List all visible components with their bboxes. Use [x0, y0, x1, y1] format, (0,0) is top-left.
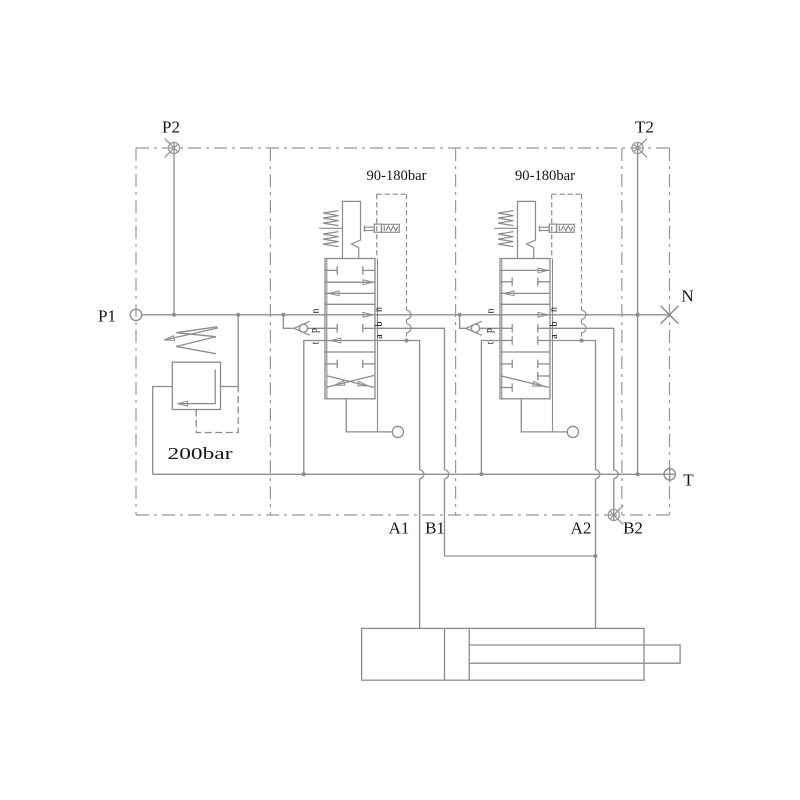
- relief valve body V1: [172, 362, 220, 409]
- valve U2 spring seat plate: [494, 227, 517, 229]
- valve U1 pos3 blocked ports: [325, 360, 337, 369]
- valve U2 pos3 blocked ports: [500, 360, 512, 369]
- valve U2 spring lower: [498, 232, 514, 247]
- valve U2 pos2 blocked t row: [500, 336, 512, 345]
- enclosure border bottom: [136, 514, 670, 516]
- svg-text:n: n: [374, 307, 385, 312]
- svg-text:b: b: [549, 322, 560, 327]
- valve U2 side rail line: [552, 259, 554, 432]
- valve U2 pos3 diagonal flow: [501, 376, 549, 388]
- svg-text:A2: A2: [571, 519, 592, 538]
- junction tank-valve2: [479, 472, 483, 476]
- port B2: [608, 506, 623, 525]
- valve U2 pos3 blocked b right: [538, 372, 550, 381]
- junction main-check2: [458, 313, 462, 317]
- port P1: [130, 309, 141, 320]
- check valve CV1 feed wire: [283, 315, 294, 329]
- valve U2 pilot box dashed right with hops: [581, 194, 583, 310]
- valve U1 compensator plunger: [374, 224, 381, 232]
- svg-text:T2: T2: [635, 118, 654, 137]
- valve U2 compensator rod: [540, 227, 550, 230]
- port P2: [165, 139, 180, 158]
- check valve CV1 seat cone: [294, 321, 310, 335]
- svg-text:N: N: [681, 287, 693, 306]
- svg-text:n: n: [549, 307, 560, 312]
- enclosure border right: [669, 148, 671, 515]
- valve U1 pos2 blocked p row: [325, 324, 337, 333]
- valve U2 pos2 blocked p row: [500, 324, 512, 333]
- junction pilot1 to a-line: [405, 339, 409, 343]
- wire B1: valve1 b port down: [375, 328, 445, 470]
- valve U1 body left double edge: [326, 259, 328, 399]
- valve U1 pos1 blocked ports: [325, 266, 337, 275]
- valve U1 section divider lower: [325, 351, 375, 353]
- check valve CV2 ball: [471, 324, 479, 332]
- enclosure border left: [135, 148, 137, 515]
- valve U1 detent bracket: [346, 399, 392, 432]
- valve U1 compensator coil: [382, 224, 400, 232]
- valve U1 pos3 cross diagonal A: [327, 376, 374, 388]
- valve U2 spring upper: [498, 211, 514, 226]
- relief valve adjustment arrow: [166, 328, 219, 340]
- valve U2 section divider upper: [500, 303, 550, 305]
- section divider border 2: [455, 148, 457, 515]
- valve U1 pos1 arrow right: [325, 281, 375, 283]
- check valve CV1 outlet wire to p port: [308, 327, 325, 329]
- junction main-P2: [172, 313, 176, 317]
- svg-text:P1: P1: [98, 307, 116, 326]
- svg-text:n: n: [311, 309, 322, 314]
- valve U2 section divider lower: [500, 351, 550, 353]
- section divider border 1: [269, 148, 271, 515]
- junction tank-T2wire: [636, 472, 640, 476]
- valve U2 t-port wire to tank: [481, 341, 500, 475]
- check valve CV2 seat cone: [466, 321, 482, 335]
- wire A2 below hop to cylinder: [595, 479, 597, 629]
- svg-text:A1: A1: [389, 519, 410, 538]
- port N plugged cross: [661, 306, 679, 324]
- valve U2 compensator coil: [557, 224, 575, 232]
- valve U1 spring lower: [323, 232, 339, 247]
- valve U2 spool stem: [518, 201, 536, 258]
- wire B2: valve2 b port down: [550, 328, 614, 470]
- valve U1 pilot box dashed left: [376, 194, 378, 258]
- svg-text:a: a: [374, 334, 385, 339]
- svg-text:90-180bar: 90-180bar: [367, 168, 427, 184]
- junction tank-valve1: [302, 472, 306, 476]
- svg-text:B2: B2: [623, 519, 643, 538]
- valve U2 pos1 arrow left: [500, 292, 550, 294]
- wire main pressure line P1 to N: [142, 314, 670, 316]
- wire B1 hop over tank line: [445, 470, 449, 479]
- wire B2 below hop to port: [613, 479, 615, 521]
- relief valve internal arrow head: [178, 401, 188, 406]
- valve U2 compensator plunger: [549, 224, 556, 232]
- relief valve right port wire: [221, 386, 239, 388]
- cylinder rod: [469, 645, 680, 663]
- check valve CV2 outlet wire to p port: [480, 327, 500, 329]
- valve U2 pilot box dashed top: [552, 193, 582, 195]
- valve U1 pos2 arrow right on n row: [363, 312, 373, 317]
- valve U2 pilot box dashed left: [551, 194, 553, 258]
- relief valve drop wire: [237, 315, 239, 387]
- valve U1 body: [325, 259, 375, 399]
- wire tank return line T: [153, 473, 676, 475]
- svg-text:a: a: [549, 334, 560, 339]
- valve U1 pos3 cross diagonal B: [327, 376, 374, 388]
- valve U1 detent knob: [392, 426, 403, 437]
- check valve CV1 ball: [299, 324, 307, 332]
- wire A2: valve2 a port down: [550, 341, 596, 471]
- valve U2 body: [500, 259, 550, 399]
- wire B1 below hop to link: [445, 479, 596, 556]
- section divider border 3: [621, 148, 623, 515]
- wire B2 hop over tank line: [614, 470, 618, 479]
- valve U2 pos3 blocked a left: [500, 383, 512, 392]
- cylinder piston left face: [444, 628, 446, 680]
- valve U1 t-port wire to tank: [304, 341, 375, 475]
- relief valve internal flow path: [178, 370, 215, 404]
- svg-text:t: t: [311, 341, 322, 344]
- valve U2 pos1 blocked ports: [500, 278, 512, 287]
- valve U2 detent bracket: [521, 399, 567, 432]
- valve U1 pos1 arrow left: [325, 292, 375, 294]
- svg-text:T: T: [683, 471, 694, 490]
- svg-text:n: n: [486, 309, 497, 314]
- valve U1 spool stem: [343, 201, 361, 258]
- valve U2 body left double edge: [501, 259, 503, 399]
- valve U2 pos1 arrow right: [500, 269, 550, 271]
- wire A2 hop over tank line: [596, 470, 600, 479]
- valve U1 spring upper: [323, 211, 339, 226]
- valve U2 detent knob: [567, 426, 578, 437]
- svg-text:p: p: [309, 328, 320, 333]
- port T2: [632, 139, 647, 158]
- relief valve pilot line (dashed): [196, 387, 238, 433]
- junction B1-A2 link: [594, 554, 598, 558]
- relief valve left port wire to tank: [153, 387, 173, 475]
- wire P2 drop line: [173, 143, 175, 315]
- valve U2 pos2 arrow right on n row: [538, 312, 548, 317]
- valve U1 pilot box dashed right with hops: [406, 194, 408, 310]
- wire A1 below hop to cylinder: [419, 479, 421, 629]
- valve U1 side rail line: [377, 259, 379, 432]
- svg-text:90-180bar: 90-180bar: [515, 168, 575, 184]
- cylinder barrel: [362, 628, 644, 680]
- junction main-relief: [236, 313, 240, 317]
- valve U1 section divider upper: [325, 303, 375, 305]
- svg-text:200bar: 200bar: [168, 444, 233, 463]
- wire A1 hop over tank line: [420, 470, 424, 479]
- junction main-check1: [281, 313, 285, 317]
- wire T2 drop line: [637, 143, 639, 475]
- svg-text:b: b: [374, 322, 385, 327]
- relief valve spring: [176, 327, 217, 354]
- junction main-T2: [636, 313, 640, 317]
- junction pilot2 to a-line: [580, 339, 584, 343]
- valve U1 compensator rod: [365, 227, 375, 230]
- valve U1 spring seat plate: [319, 227, 342, 229]
- check valve CV2 feed wire: [460, 315, 466, 329]
- svg-text:p: p: [484, 328, 495, 333]
- svg-text:t: t: [486, 341, 497, 344]
- valve U1 pos2 arrow left on t row: [331, 338, 341, 343]
- valve U1 pilot box dashed top: [377, 193, 407, 195]
- svg-text:B1: B1: [425, 519, 445, 538]
- enclosure border top: [136, 147, 670, 149]
- cylinder piston right face: [468, 628, 470, 680]
- svg-text:P2: P2: [162, 118, 180, 137]
- port T: [664, 466, 675, 483]
- wire A1: valve1 a port down: [375, 341, 420, 471]
